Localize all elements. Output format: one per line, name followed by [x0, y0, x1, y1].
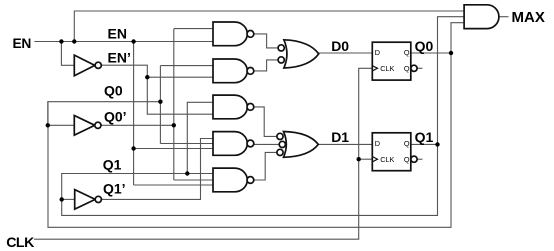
wire NAND3 output to OR2 [254, 107, 277, 136]
svg-text:Q1: Q1 [103, 157, 122, 173]
wire Q1' [101, 139, 213, 200]
junction EN-NAND4 tap [131, 146, 135, 150]
junction EN-top rail tap [72, 39, 76, 43]
wire Q0' branch to NAND1 [174, 28, 213, 30]
flip-flop FF0 [372, 42, 417, 80]
svg-text:Q1: Q1 [415, 129, 434, 145]
wire Q0 branch to NAND2 [160, 65, 213, 67]
wire EN vertical bus [133, 42, 135, 186]
svg-text:Q0: Q0 [415, 38, 434, 54]
wire EN to inverter [61, 42, 74, 66]
svg-text:D1: D1 [331, 129, 349, 145]
wire EN' [101, 65, 213, 114]
wire Q0' vertical bus [173, 29, 175, 180]
junction CLK-DFF1 tap [357, 157, 361, 161]
wire Q0 output [411, 52, 451, 54]
wire Q0' branch to NAND5 [174, 179, 213, 181]
wire D0 [319, 52, 373, 54]
svg-text:MAX: MAX [512, 9, 545, 26]
junction Q0-bus tap [158, 100, 162, 104]
wire Q0 feedback [48, 23, 464, 228]
junction Q0 feedback tap [449, 51, 453, 55]
NAND gate G1 [213, 22, 254, 46]
NAND gate G4 [213, 132, 254, 156]
wire Q1 feedback [62, 17, 464, 216]
wire Q0 to inverter [48, 124, 75, 126]
svg-text:Q: Q [404, 48, 410, 57]
svg-text:EN: EN [108, 26, 127, 42]
wire EN branch to NAND4 [134, 148, 213, 150]
inverter U1 EN' [74, 55, 101, 76]
svg-text:EN: EN [13, 36, 32, 51]
NAND gate G3 [213, 95, 254, 119]
wire MAX output [499, 16, 509, 18]
svg-text:CLK: CLK [380, 64, 394, 73]
wire NAND4 output to OR2 [254, 143, 280, 145]
wire D1 [319, 143, 373, 145]
negative-OR gate G6 D0 [278, 40, 319, 68]
svg-text:Q: Q [404, 139, 410, 148]
wire Q0 vertical bus [159, 66, 161, 144]
wire CLK branch to DFF1 [359, 158, 373, 160]
wire Q1 output [411, 143, 438, 145]
NAND gate G2 [213, 59, 254, 83]
wire Q0 [48, 102, 161, 126]
wire EN' branch to NAND2 [147, 76, 213, 78]
svg-text:D: D [375, 139, 380, 148]
svg-text:CLK: CLK [380, 155, 394, 164]
inverter U3 Q1' [75, 190, 102, 210]
svg-text:Q1’: Q1’ [103, 181, 126, 197]
wire NAND2 output to OR1 [254, 60, 279, 71]
AND gate G8 MAX [464, 5, 499, 29]
NAND gate G5 [213, 168, 254, 192]
wire NAND5 output to OR2 [254, 152, 277, 180]
negative-OR gate G7 D1 [277, 132, 318, 158]
junction Q1-NAND3 tap [185, 171, 189, 175]
svg-text:D0: D0 [331, 38, 349, 54]
wire NAND1 output to OR1 [254, 34, 279, 48]
wire CLK [34, 68, 372, 239]
junction EN-bus tap [131, 39, 135, 43]
svg-text:Q0’: Q0’ [104, 109, 127, 125]
junction Q1-inverter tap [60, 197, 64, 201]
svg-text:Q: Q [404, 64, 410, 73]
junction Q0 feedback to inverter [46, 123, 50, 127]
svg-text:Q: Q [404, 155, 410, 164]
wire Q0' [101, 124, 174, 126]
svg-text:EN’: EN’ [108, 50, 131, 66]
wire EN input [34, 41, 213, 43]
inverter U2 Q0' [74, 116, 101, 136]
junction Q0'-bus tap [172, 123, 176, 127]
wire Q1 to inverter [62, 198, 75, 200]
wire DFF1 QB stub [417, 158, 422, 160]
svg-text:Q0: Q0 [104, 83, 123, 99]
junction EN'-NAND2 tap [145, 75, 149, 79]
wire Q0 branch to NAND4 [160, 143, 213, 145]
flip-flop FF1 [372, 133, 417, 171]
wire EN up to top rail [74, 11, 464, 42]
junction EN-inverter tap [59, 39, 63, 43]
wire EN branch to NAND5 [134, 184, 213, 186]
svg-text:CLK: CLK [6, 235, 35, 251]
junction Q1 feedback tap [435, 142, 439, 146]
wire DFF0 QB stub [417, 67, 422, 69]
wire Q1 [62, 174, 213, 200]
wire Q1 branch to NAND3 [187, 102, 213, 173]
svg-text:D: D [375, 48, 380, 57]
